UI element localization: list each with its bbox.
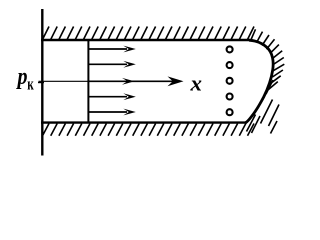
wire velocity arrow 4 [88,93,135,100]
ground bottom wall hatching [43,124,255,136]
wire piston face vertical line [87,40,89,123]
wire bottom wall inner line [41,121,247,123]
svg-text:к: к [27,75,34,94]
wire velocity arrow 1 [88,46,135,53]
node centerline tick at p_k [38,82,44,84]
svg-text:x: x [189,71,202,96]
wire top wall inner line [41,39,250,41]
ground right curve hatching [247,29,285,133]
wire left closed-end wall vertical line [41,9,43,156]
wire velocity arrow 5 [88,109,135,116]
ground top wall hatching [43,27,255,40]
wire velocity arrow 2 [88,61,135,68]
wire x-axis center arrow [39,76,184,86]
wire right end curved boundary [246,40,273,122]
svg-text:p: p [16,64,28,90]
node flame-front circles column [227,46,233,115]
